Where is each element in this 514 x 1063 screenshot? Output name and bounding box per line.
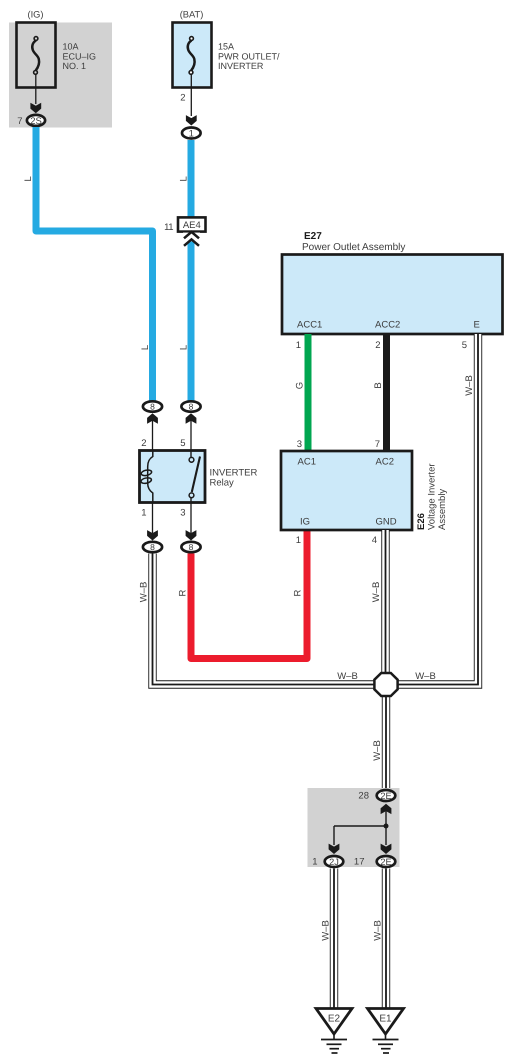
wire from fuse F2 to connector 1 <box>190 74 192 116</box>
arrow into lower connector 8 right <box>186 530 197 540</box>
svg-text:E1: E1 <box>379 1014 392 1025</box>
svg-text:W–B: W–B <box>415 671 436 682</box>
wire W-B from connector 8 to ground junction <box>153 554 377 685</box>
svg-text:7: 7 <box>375 439 380 450</box>
svg-text:PWR OUTLET/: PWR OUTLET/ <box>218 51 280 61</box>
svg-text:4: 4 <box>372 535 377 546</box>
connector 8 lower-right <box>181 542 200 552</box>
svg-text:L: L <box>178 176 189 181</box>
svg-text:3: 3 <box>297 439 302 450</box>
svg-text:7: 7 <box>17 116 22 127</box>
svg-text:(IG): (IG) <box>27 10 43 20</box>
svg-text:W–B: W–B <box>139 582 150 603</box>
arrow out of connector 2E (up) <box>381 804 392 814</box>
svg-text:1: 1 <box>296 340 301 351</box>
svg-text:W–B: W–B <box>371 582 382 603</box>
svg-text:15A: 15A <box>218 42 234 52</box>
gray junction-block panel (IG fuse area) <box>9 23 112 128</box>
wire from fuse F1 to connector 2S <box>35 74 37 104</box>
wire from 2E to junction dot <box>385 810 387 826</box>
wire L (blue) from 2S to connector 8 pin 2 <box>36 127 153 401</box>
junction dot <box>384 824 389 829</box>
wire W-B from E26 GND to ground junction <box>381 530 389 674</box>
svg-text:AE4: AE4 <box>183 220 201 231</box>
wire from relay pin 3 down <box>190 503 192 534</box>
svg-text:IG: IG <box>300 517 310 528</box>
svg-text:1: 1 <box>189 129 194 140</box>
svg-text:(BAT): (BAT) <box>180 10 204 20</box>
connector 2S <box>27 115 45 127</box>
svg-text:Voltage Inverter: Voltage Inverter <box>427 463 438 530</box>
wire R (red) from connector 8 to E26 IG <box>191 531 307 659</box>
wire from connector 8 to relay pin 2 <box>152 420 154 451</box>
wire W-B from 2E to ground E1 <box>382 869 390 1009</box>
connector 2E upper <box>377 790 396 801</box>
value label 15A PWR OUTLET/INVERTER <box>218 42 280 72</box>
fuse F2 15A PWR OUTLET/INVERTER box <box>173 23 212 88</box>
gray junction-block panel (bottom) <box>308 788 400 867</box>
svg-text:8: 8 <box>189 542 194 552</box>
relay K1 INVERTER Relay <box>140 451 206 503</box>
svg-text:W–B: W–B <box>321 920 332 941</box>
connector 2E lower <box>377 856 396 867</box>
value label 10A ECU-IG NO.1 <box>63 42 97 72</box>
svg-text:W–B: W–B <box>337 671 358 682</box>
svg-text:AC1: AC1 <box>298 457 316 468</box>
svg-text:2: 2 <box>180 93 185 104</box>
component E27 Power Outlet Assembly box <box>282 255 503 335</box>
svg-text:Relay: Relay <box>210 478 235 489</box>
svg-text:INVERTER: INVERTER <box>218 61 264 71</box>
wire from connector 8 to relay pin 5 <box>190 420 192 451</box>
svg-text:Power Outlet Assembly: Power Outlet Assembly <box>302 242 405 253</box>
svg-text:L: L <box>140 345 151 350</box>
connector AE4 <box>178 217 206 231</box>
svg-text:2E: 2E <box>380 791 391 801</box>
relay switch contacts <box>189 451 200 503</box>
wire from dot to connector 2J <box>334 825 386 827</box>
wire W-B from 2J to ground E2 <box>330 869 338 1009</box>
connector 8 left <box>143 401 162 411</box>
connector 8 lower-left <box>143 542 162 552</box>
arrow into connector 8 (left) <box>147 413 158 423</box>
arrow into lower connector 8 left <box>147 530 158 540</box>
component E26 Voltage Inverter Assembly box <box>281 451 412 530</box>
svg-text:8: 8 <box>189 402 194 412</box>
svg-text:B: B <box>373 382 384 388</box>
AE4 chevrons <box>183 232 200 246</box>
wire G (green) ACC1 to AC1 <box>305 334 312 451</box>
svg-text:E: E <box>474 320 480 331</box>
wire from dot to connector 2E lower <box>385 826 387 845</box>
svg-text:2: 2 <box>375 340 380 351</box>
svg-text:2: 2 <box>141 438 146 449</box>
connector 2J <box>325 856 344 867</box>
svg-text:3: 3 <box>180 508 185 519</box>
svg-text:W–B: W–B <box>464 375 475 396</box>
svg-text:AC2: AC2 <box>376 457 394 468</box>
svg-text:17: 17 <box>354 857 365 868</box>
ground point E2 <box>316 1009 352 1054</box>
svg-text:ECU–IG: ECU–IG <box>63 51 97 61</box>
arrow into connector 8 (right) <box>186 413 197 423</box>
svg-text:W–B: W–B <box>373 920 384 941</box>
svg-text:2E: 2E <box>380 857 391 867</box>
svg-text:ACC2: ACC2 <box>375 320 400 331</box>
ground point E1 <box>368 1009 404 1054</box>
svg-text:1: 1 <box>312 857 317 868</box>
svg-text:2J: 2J <box>329 857 339 867</box>
svg-text:W–B: W–B <box>372 740 383 761</box>
connector 1 <box>182 128 201 140</box>
svg-text:NO. 1: NO. 1 <box>63 61 87 71</box>
svg-text:10A: 10A <box>63 42 79 52</box>
fuse F1 10A ECU-IG NO.1 box <box>17 23 56 88</box>
svg-text:5: 5 <box>180 438 185 449</box>
arrow into connector 2J <box>329 844 340 854</box>
svg-text:R: R <box>293 589 304 596</box>
svg-text:E2: E2 <box>328 1014 341 1025</box>
svg-text:ACC1: ACC1 <box>297 320 322 331</box>
svg-text:G: G <box>295 382 306 389</box>
svg-text:5: 5 <box>462 340 467 351</box>
relay name label <box>210 468 258 489</box>
connector 8 right <box>181 401 200 411</box>
svg-text:L: L <box>178 345 189 350</box>
arrow into connector 2E lower <box>381 844 392 854</box>
wire from relay pin 1 down <box>152 503 154 534</box>
wire L (blue) from AE4 to connector 8 pin 5 <box>188 242 195 402</box>
component E26 name (rotated) <box>416 463 448 530</box>
svg-text:28: 28 <box>358 791 369 802</box>
arrow into connector 1 <box>186 115 197 125</box>
svg-text:11: 11 <box>164 222 173 233</box>
wire W-B from E27 pin E to ground junction <box>396 334 478 685</box>
svg-text:E26: E26 <box>416 513 427 530</box>
svg-text:R: R <box>177 589 188 596</box>
svg-text:GND: GND <box>376 517 397 528</box>
svg-text:2S: 2S <box>30 116 42 127</box>
svg-text:E27: E27 <box>304 231 322 242</box>
svg-text:8: 8 <box>150 542 155 552</box>
wire L (blue) from connector 1 to AE4 <box>188 140 195 218</box>
ground junction node (octagon) <box>374 673 397 696</box>
svg-text:1: 1 <box>296 535 301 546</box>
wire B (black) ACC2 to AC2 <box>383 334 390 451</box>
svg-text:Assembly: Assembly <box>437 489 448 530</box>
svg-text:L: L <box>23 176 34 181</box>
svg-text:1: 1 <box>141 508 146 519</box>
relay coil <box>140 451 152 503</box>
arrow into connector 2S <box>30 103 41 113</box>
wire W-B from junction down to connector 2E <box>382 695 390 789</box>
svg-text:8: 8 <box>150 402 155 412</box>
